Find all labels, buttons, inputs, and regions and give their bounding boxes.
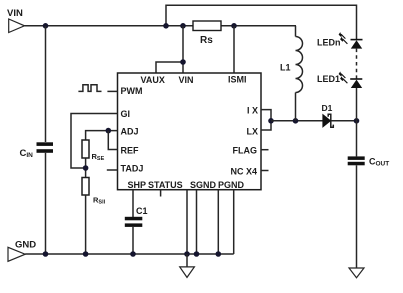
resistor RSH [82,178,89,196]
junction dot rail/VIN-pin x=183 [180,23,186,29]
wire ISMI pin riser x=234 [233,26,235,73]
svg-text:PWM: PWM [121,86,143,96]
pin label LX lower [247,127,259,137]
capacitor CIN plates [37,142,54,153]
svg-text:GND: GND [15,240,36,251]
wire FLAG stub [261,149,269,151]
GND input port triangle [8,247,25,261]
wire TADJ stub [107,169,118,171]
junction dot rail/SGND1 [184,251,190,257]
PWM squarewave source glyph [78,85,101,92]
junction dot LX bracket [268,118,274,124]
junction dot rail/PGND1 [216,251,222,257]
pin label TADJ [121,164,144,174]
wire SGND pin 1 [186,190,188,254]
pin label SGND [190,180,217,190]
pin label NC X4 [231,167,258,177]
svg-text:ADJ: ADJ [121,127,139,137]
LED LED1 [350,79,362,88]
wire PWM pin stub [107,90,117,92]
wire PGND pin 1 [217,190,219,254]
wire GI to RSE/RSH junction [71,114,118,169]
wire RSH to ground rail [85,195,87,254]
wire NC X4 stub [261,170,269,172]
pin label LX upper [247,106,258,116]
junction dot rail/CIN x=45.5 [43,23,49,29]
junction dot ADJ/REF [106,128,112,134]
junction dot rail/C1 bottom [130,251,136,257]
pin label FLAG [233,146,258,156]
wire STATUS stub [160,190,162,197]
svg-text:SHP: SHP [128,180,147,190]
resistor Rs [193,21,221,31]
inductor L1 [296,26,303,121]
svg-text:FLAG: FLAG [233,146,258,156]
ground symbol output [349,268,364,278]
junction dot VAUX/VIN riser [180,59,186,65]
pin label REF [121,146,140,156]
svg-text:LED1: LED1 [317,74,340,84]
svg-text:LX: LX [247,127,259,137]
pin label ISMI [228,75,247,85]
svg-text:STATUS: STATUS [148,180,183,190]
VIN input port triangle [9,19,25,33]
wire output node to COUT [356,121,358,157]
LED1 emission arrows [339,73,347,84]
svg-text:SGND: SGND [190,180,217,190]
pin label PGND [218,180,245,190]
wire C1 to ground rail [132,227,134,254]
pin label VIN [179,75,194,85]
wire ground rail y=254 [25,253,234,255]
junction dot rail/RSH bottom [83,251,89,257]
wire LX node to D1 [271,120,323,122]
wire ADJ to RSE top [86,131,118,140]
label C1 [136,206,148,216]
junction dot rail/SGND2 [194,251,200,257]
svg-text:C1: C1 [136,206,148,216]
svg-text:LEDn: LEDn [317,38,341,48]
junction dot LX/L1 bottom [293,118,299,124]
svg-text:D1: D1 [322,103,333,113]
svg-text:ISMI: ISMI [228,75,247,85]
svg-text:I X: I X [247,106,258,116]
junction dot rail/ISMI x=234 [231,23,237,29]
pin label ADJ [121,127,139,137]
wire REF to ADJ node [108,131,117,150]
label D1 [322,103,333,113]
IC U1 body [118,73,262,190]
capacitor C1 plates [125,217,143,227]
wire COUT to ground [356,165,358,268]
svg-text:TADJ: TADJ [121,164,144,174]
svg-text:VAUX: VAUX [141,75,165,85]
node VIN input label [7,8,23,19]
label COUT [369,157,389,168]
wire rail after Rs to L1 [221,25,296,27]
wire VIN rail (top, y=26) [25,25,194,27]
svg-text:L1: L1 [280,63,291,73]
wire SHP pin to C1 [132,190,134,217]
label L1 [280,63,291,73]
svg-text:GI: GI [121,109,131,119]
pin label SHP [128,180,147,190]
capacitor CIN wire upper [45,26,47,142]
node GND input label [15,240,36,251]
label LED1 [317,74,340,84]
wire LED1 to output node [356,88,358,121]
junction dot output node [354,118,360,124]
ground symbol below rail [180,254,195,277]
pin label STATUS [148,180,183,190]
wire top line to LED string (y=5) [166,5,357,39]
svg-text:PGND: PGND [218,180,245,190]
label RSE [92,152,105,162]
wire dashed LED string [356,49,358,79]
label LEDn [317,38,341,48]
svg-text:REF: REF [121,146,140,156]
wire VIN pin riser x=183 [182,26,184,73]
junction dot rail/CIN bottom [43,251,49,257]
svg-text:VIN: VIN [179,75,194,85]
resistor RSE [82,140,89,158]
capacitor COUT plates [348,156,365,165]
capacitor CIN wire lower [45,153,47,254]
svg-text:NC X4: NC X4 [231,167,258,177]
LED LEDn [351,40,363,49]
pin label GI [121,109,131,119]
wire RSE bottom to junction [85,158,87,178]
label CIN [20,148,34,159]
wire SGND pin 2 [196,190,198,254]
wire D1 cathode to output node [331,120,357,122]
wire VAUX pin riser [156,62,183,73]
diode D1 (schottky) [323,114,334,127]
LEDn emission arrows [339,33,347,44]
pin label VAUX [141,75,165,85]
svg-text:Rs: Rs [200,35,213,46]
wire LX bracket [261,110,271,130]
wire PGND pin 2 (rail right end) [233,190,235,254]
label Rs [200,35,213,46]
pin label PWM [121,86,143,96]
junction dot rail/top-line x=166 [163,23,169,29]
junction dot RSE/RSH/GI [83,165,89,171]
svg-text:VIN: VIN [7,8,23,19]
label RSH [93,196,106,206]
